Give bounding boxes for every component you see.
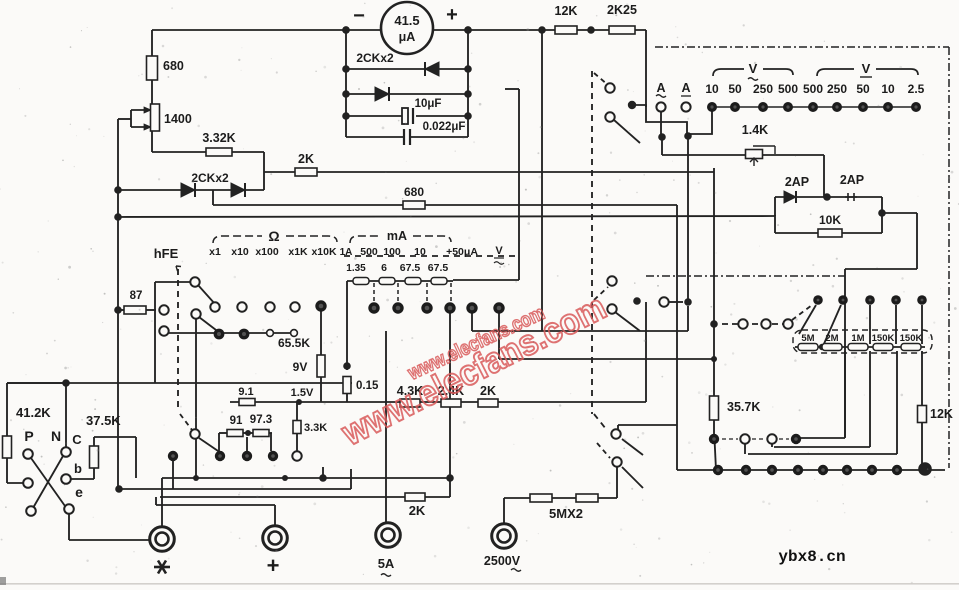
svg-text:2.5: 2.5 <box>908 82 925 96</box>
svg-text:6: 6 <box>381 262 387 274</box>
svg-text:37.5K: 37.5K <box>86 413 121 428</box>
svg-text:50: 50 <box>856 82 870 96</box>
svg-text:5A: 5A <box>378 556 395 571</box>
svg-text:+: + <box>267 553 280 578</box>
svg-text:250: 250 <box>753 82 773 96</box>
svg-text:N: N <box>51 428 61 444</box>
svg-text:91: 91 <box>230 415 243 427</box>
svg-text:680: 680 <box>404 185 424 199</box>
svg-text:3.3K: 3.3K <box>304 422 327 434</box>
svg-text:67.5: 67.5 <box>428 262 449 274</box>
svg-text:150K: 150K <box>900 333 923 344</box>
svg-text:1400: 1400 <box>164 112 192 126</box>
svg-text:b: b <box>74 461 82 476</box>
svg-text:2AP: 2AP <box>840 173 864 187</box>
svg-text:2M: 2M <box>825 333 838 344</box>
svg-text:12K: 12K <box>555 4 578 18</box>
svg-text:1A: 1A <box>340 247 353 258</box>
svg-text:12K: 12K <box>930 407 953 421</box>
svg-text:V: V <box>862 61 871 76</box>
svg-text:500: 500 <box>778 82 798 96</box>
svg-text:150K: 150K <box>872 333 895 344</box>
svg-text:A: A <box>656 81 665 95</box>
svg-text:10: 10 <box>705 82 719 96</box>
svg-text:9V: 9V <box>293 360 308 374</box>
svg-text:ybx8.cn: ybx8.cn <box>778 548 845 566</box>
svg-text:hFE: hFE <box>154 246 179 261</box>
svg-text:50: 50 <box>728 82 742 96</box>
svg-text:41.2K: 41.2K <box>16 405 51 420</box>
svg-text:x1: x1 <box>209 246 221 258</box>
svg-text:10K: 10K <box>819 213 841 227</box>
svg-text:2500V: 2500V <box>484 554 521 568</box>
svg-text:35.7K: 35.7K <box>727 400 760 414</box>
svg-text:97.3: 97.3 <box>250 414 272 426</box>
svg-text:V: V <box>495 245 503 257</box>
svg-text:10: 10 <box>414 246 426 258</box>
svg-text:1M: 1M <box>851 333 864 344</box>
svg-text:500: 500 <box>803 82 823 96</box>
svg-text:2K: 2K <box>409 503 426 518</box>
svg-text:5M: 5M <box>801 333 814 344</box>
svg-text:2K25: 2K25 <box>607 3 637 17</box>
svg-text:2CKx2: 2CKx2 <box>191 171 229 185</box>
svg-text:e: e <box>75 484 83 500</box>
svg-text:1.4K: 1.4K <box>742 123 768 137</box>
svg-text:10μF: 10μF <box>415 98 442 110</box>
svg-text:10: 10 <box>881 82 895 96</box>
svg-text:65.5K: 65.5K <box>278 336 310 350</box>
svg-text:3.32K: 3.32K <box>202 131 235 145</box>
svg-text:+: + <box>446 4 458 26</box>
svg-text:1.5V: 1.5V <box>291 387 314 399</box>
svg-text:680: 680 <box>163 59 184 73</box>
svg-text:250: 250 <box>827 82 847 96</box>
svg-text:Ω: Ω <box>268 228 279 244</box>
svg-text:41.5: 41.5 <box>394 13 419 28</box>
svg-text:0.022μF: 0.022μF <box>423 121 466 133</box>
svg-text:2AP: 2AP <box>785 175 809 189</box>
svg-text:x10: x10 <box>231 246 249 258</box>
svg-text:mA: mA <box>387 229 407 243</box>
svg-text:2K: 2K <box>298 152 314 166</box>
svg-text:P: P <box>24 428 33 444</box>
svg-text:x10K: x10K <box>311 246 337 258</box>
svg-text:87: 87 <box>130 290 143 302</box>
svg-text:A: A <box>681 81 690 95</box>
svg-text:9.1: 9.1 <box>238 386 253 398</box>
svg-text:100: 100 <box>383 246 401 258</box>
svg-text:μA: μA <box>399 30 416 44</box>
svg-text:C: C <box>72 432 82 447</box>
svg-text:2CKx2: 2CKx2 <box>356 51 394 65</box>
svg-text:67.5: 67.5 <box>400 262 421 274</box>
svg-text:x1K: x1K <box>288 246 308 258</box>
svg-text:x100: x100 <box>255 246 279 258</box>
svg-text:1.35: 1.35 <box>346 263 366 274</box>
svg-text:0.15: 0.15 <box>356 380 379 392</box>
svg-text:500: 500 <box>360 246 378 258</box>
svg-text:+50μA: +50μA <box>446 246 478 258</box>
